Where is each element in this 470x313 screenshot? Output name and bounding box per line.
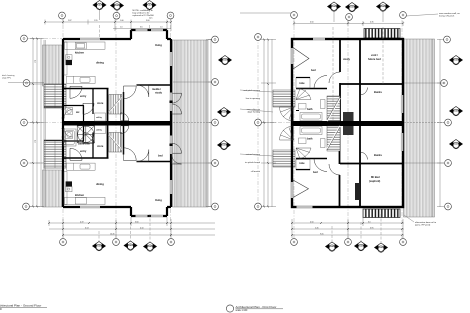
svg-text:utility: utility (96, 116, 103, 119)
svg-text:3.60: 3.60 (135, 221, 139, 223)
svg-text:4.4: 4.4 (34, 140, 36, 143)
svg-text:(capford): (capford) (369, 179, 380, 183)
svg-text:entry: entry (80, 149, 87, 153)
svg-text:dining: dining (96, 182, 104, 186)
svg-text:4.50: 4.50 (310, 22, 314, 24)
svg-text:living: living (155, 43, 162, 47)
svg-text:robe: robe (299, 81, 305, 85)
svg-text:align framing: align framing (247, 111, 260, 114)
svg-text:1.0: 1.0 (160, 27, 163, 29)
svg-text:to splash board: to splash board (245, 161, 261, 164)
svg-text:4.50: 4.50 (310, 221, 314, 223)
svg-text:sill mount: sill mount (251, 170, 261, 173)
svg-text:2.87: 2.87 (68, 20, 72, 22)
svg-text:1.95: 1.95 (94, 20, 98, 22)
svg-text:study: study (155, 91, 162, 95)
svg-text:utility: utility (96, 129, 103, 132)
svg-text:bath: bath (307, 107, 313, 111)
svg-text:study: study (343, 57, 350, 61)
svg-text:living: living (155, 198, 162, 202)
svg-text:bath: bath (307, 137, 313, 141)
svg-text:1.0: 1.0 (120, 27, 123, 29)
svg-text:entry: entry (80, 94, 87, 98)
svg-text:align FFL: align FFL (2, 78, 12, 80)
svg-text:3.60: 3.60 (146, 20, 150, 22)
svg-text:robe: robe (299, 161, 305, 165)
svg-text:store: store (97, 144, 104, 148)
svg-text:5.45: 5.45 (315, 227, 319, 229)
svg-text:4.10: 4.10 (140, 227, 144, 229)
svg-text:void /: void / (371, 53, 378, 57)
svg-text:kitchen: kitchen (75, 193, 84, 197)
svg-text:Architectural Plan - First Flo: Architectural Plan - First Floor (236, 305, 277, 309)
svg-text:4.4: 4.4 (34, 60, 36, 63)
svg-text:Mt Bed: Mt Bed (371, 175, 380, 179)
svg-text:bed: bed (158, 154, 163, 158)
svg-text:wc: wc (76, 111, 80, 114)
svg-text:4.35: 4.35 (370, 22, 374, 24)
svg-text:9.05: 9.05 (320, 233, 324, 235)
svg-text:(penc. HP print): (penc. HP print) (415, 224, 431, 227)
svg-text:scale 1:100: scale 1:100 (236, 310, 248, 312)
svg-text:Bunks: Bunks (374, 90, 382, 94)
svg-text:6.13: 6.13 (85, 227, 89, 229)
svg-text:bathroom: bathroom (78, 142, 91, 146)
svg-text:losing 170 pitch: losing 170 pitch (439, 15, 455, 18)
svg-text:1.06: 1.06 (120, 20, 124, 22)
svg-text:bed: bed (313, 170, 318, 174)
svg-text:10.45: 10.45 (110, 233, 115, 235)
svg-text:store: store (97, 101, 104, 105)
svg-text:kitchen: kitchen (75, 51, 84, 55)
svg-text:dining: dining (96, 61, 104, 65)
svg-text:3.95: 3.95 (370, 227, 374, 229)
svg-text:future bed: future bed (368, 57, 381, 61)
svg-text:3.0: 3.0 (368, 221, 371, 223)
svg-text:Bunks: Bunks (374, 153, 382, 157)
svg-text:Architectural Plan - Ground Fl: Architectural Plan - Ground Floor (0, 304, 41, 308)
svg-text:4.19: 4.19 (80, 221, 84, 223)
svg-text:media /: media / (152, 87, 161, 91)
svg-text:line to opening: line to opening (246, 97, 261, 100)
svg-text:3.6: 3.6 (140, 27, 143, 29)
svg-text:bed: bed (311, 68, 316, 72)
